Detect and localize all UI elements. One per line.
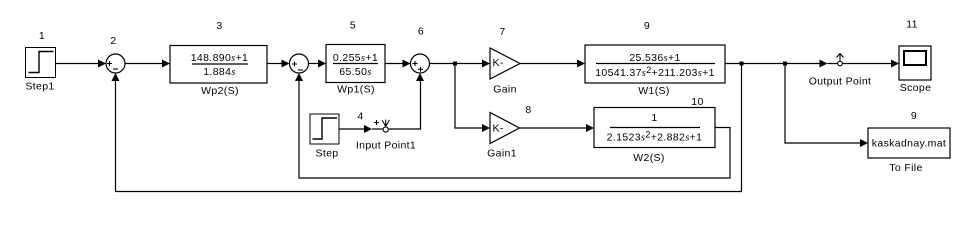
svg-text:W2(S): W2(S) xyxy=(633,152,665,164)
wire Sum5 to Wp1 xyxy=(309,60,327,68)
summer Sum5 xyxy=(290,20,357,74)
svg-text:0.255s+1: 0.255s+1 xyxy=(333,52,378,64)
transfer function W2(S) block 10 xyxy=(594,96,715,164)
svg-text:2: 2 xyxy=(110,35,116,47)
wire Sum2 to Wp2 xyxy=(125,60,170,68)
wire Sum6 to Gain with junction xyxy=(430,60,491,68)
svg-text:W1(S): W1(S) xyxy=(638,85,670,97)
svg-text:kaskadnay.mat: kaskadnay.mat xyxy=(872,138,946,150)
svg-text:3: 3 xyxy=(216,20,222,32)
svg-text:1: 1 xyxy=(651,112,657,124)
svg-text:To File: To File xyxy=(889,162,922,174)
svg-text:11: 11 xyxy=(906,19,918,31)
svg-text:2.1523s2+2.882s+1: 2.1523s2+2.882s+1 xyxy=(607,130,703,144)
svg-text:Gain1: Gain1 xyxy=(487,148,517,160)
wire Gain1 to W2 xyxy=(520,124,595,132)
to file block kaskadnay.mat xyxy=(868,110,950,174)
wire inner feedback W2 to Sum5 xyxy=(295,73,730,178)
svg-text:25.536s+1: 25.536s+1 xyxy=(629,52,680,64)
svg-text:6: 6 xyxy=(418,26,424,38)
wire outer feedback to Sum2 xyxy=(112,64,742,192)
input point marker Input Point1 xyxy=(356,120,416,152)
wire Step1 to Sum2 xyxy=(56,60,107,68)
svg-text:Output Point: Output Point xyxy=(809,76,872,88)
junction node to feedback xyxy=(740,62,744,66)
svg-text:Gain: Gain xyxy=(493,84,517,96)
svg-text:10541.37s2+211.203s+1: 10541.37s2+211.203s+1 xyxy=(595,65,715,79)
svg-text:8: 8 xyxy=(525,104,531,116)
svg-text:7: 7 xyxy=(499,26,505,38)
svg-text:4: 4 xyxy=(357,111,363,123)
wire Wp1 to Sum6 xyxy=(385,60,411,68)
svg-text:Step: Step xyxy=(316,148,339,160)
svg-text:Input Point1: Input Point1 xyxy=(356,140,416,152)
svg-text:9: 9 xyxy=(644,20,650,32)
junction node to To File xyxy=(783,62,787,66)
step source Step1 xyxy=(25,30,55,93)
wire W1 output line to Scope xyxy=(725,60,899,68)
wire Wp2 to Sum5 xyxy=(267,60,290,68)
svg-text:9: 9 xyxy=(911,110,917,122)
transfer function Wp2(S) block 3 xyxy=(170,20,267,97)
transfer function W1(S) block 9 xyxy=(585,20,725,97)
svg-text:5: 5 xyxy=(350,20,356,32)
svg-text:1: 1 xyxy=(39,30,45,42)
svg-text:Scope: Scope xyxy=(900,82,932,94)
svg-text:65.50s: 65.50s xyxy=(339,66,371,78)
summer Sum6 xyxy=(411,26,430,74)
gain Gain block 7 xyxy=(490,26,520,96)
svg-text:148.890s+1: 148.890s+1 xyxy=(191,52,249,64)
svg-text:K-: K- xyxy=(493,57,504,69)
wire branch down to To File xyxy=(785,64,868,148)
svg-text:Wp2(S): Wp2(S) xyxy=(201,85,239,97)
svg-text:10: 10 xyxy=(691,96,703,108)
svg-text:Wp1(S): Wp1(S) xyxy=(337,84,375,96)
wire junction down to Gain1 xyxy=(455,64,490,133)
wire Step to input point xyxy=(339,125,383,133)
gain Gain1 block 8 xyxy=(487,104,531,160)
svg-text:1.884s: 1.884s xyxy=(203,66,235,78)
svg-text:Step1: Step1 xyxy=(25,81,54,93)
wire input point to Sum6 xyxy=(389,80,421,129)
scope Scope block 11 xyxy=(899,19,931,95)
step source Step block 4 xyxy=(310,111,364,160)
svg-text:K-: K- xyxy=(493,123,504,135)
output point marker xyxy=(809,54,872,88)
wire Gain to W1 xyxy=(520,60,585,68)
transfer function Wp1(S) block 5 xyxy=(326,45,385,96)
summer Sum2 xyxy=(106,35,125,73)
